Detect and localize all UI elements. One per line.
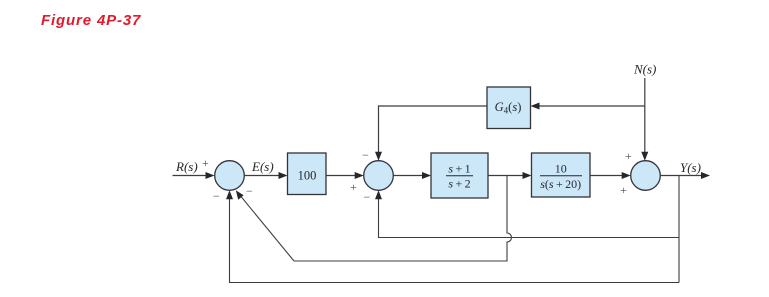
wire: inner feedback to bottom of S2 [379, 197, 680, 238]
wire: G4 output to top of S2 [379, 106, 488, 154]
summing junction S3 [631, 161, 661, 191]
svg-text:+: + [350, 180, 357, 194]
wire: S3 to Y(s) output [660, 175, 702, 177]
block G1 (s+1)/(s+2) [431, 153, 488, 198]
svg-text:s(s + 20): s(s + 20) [540, 177, 581, 191]
svg-text:+: + [625, 149, 632, 163]
wire: G1 to block G2 with takeoff node T1 [488, 175, 524, 177]
wire: diagonal into S1 [240, 195, 295, 261]
svg-text:−: − [364, 190, 371, 204]
block G2 10/(s(s+20)) [532, 153, 591, 197]
block G4(s) [487, 87, 531, 129]
svg-text:E(s): E(s) [251, 159, 274, 174]
wire: S2 to block G1 [393, 175, 423, 177]
wire: G2 to summing junction S3 [590, 175, 623, 177]
wire: mid feedback from takeoff T1 with hop over inner line [294, 176, 512, 262]
svg-text:+: + [620, 183, 627, 197]
svg-text:−: − [362, 148, 369, 162]
summing junction S2 [364, 161, 394, 191]
svg-text:s + 1: s + 1 [448, 162, 470, 176]
wire: N(s) tap to G4 block [538, 105, 645, 107]
svg-text:N(s): N(s) [633, 62, 656, 77]
block 100 [288, 153, 327, 195]
svg-text:Y(s): Y(s) [680, 160, 701, 175]
svg-text:100: 100 [298, 169, 317, 183]
wire: N(s) down into S3 [644, 78, 646, 154]
wire: Y takeoff vertical [678, 176, 680, 283]
wire: R(s) input into summing junction S1 [173, 175, 208, 177]
svg-text:−: − [246, 184, 253, 198]
svg-text:G4(s): G4(s) [495, 100, 522, 116]
svg-text:10: 10 [555, 162, 567, 176]
svg-text:−: − [213, 189, 220, 203]
svg-text:R(s): R(s) [175, 159, 198, 174]
svg-text:Figure 4P-37: Figure 4P-37 [41, 12, 141, 29]
wire: block 100 to summing junction S2 [326, 175, 356, 177]
svg-text:s + 2: s + 2 [448, 177, 470, 191]
summing junction S1 [215, 161, 245, 191]
wire: S1 to block 100, E(s) [244, 175, 280, 177]
wire: outer feedback to bottom of S1 [230, 197, 680, 283]
svg-text:+: + [202, 156, 209, 170]
